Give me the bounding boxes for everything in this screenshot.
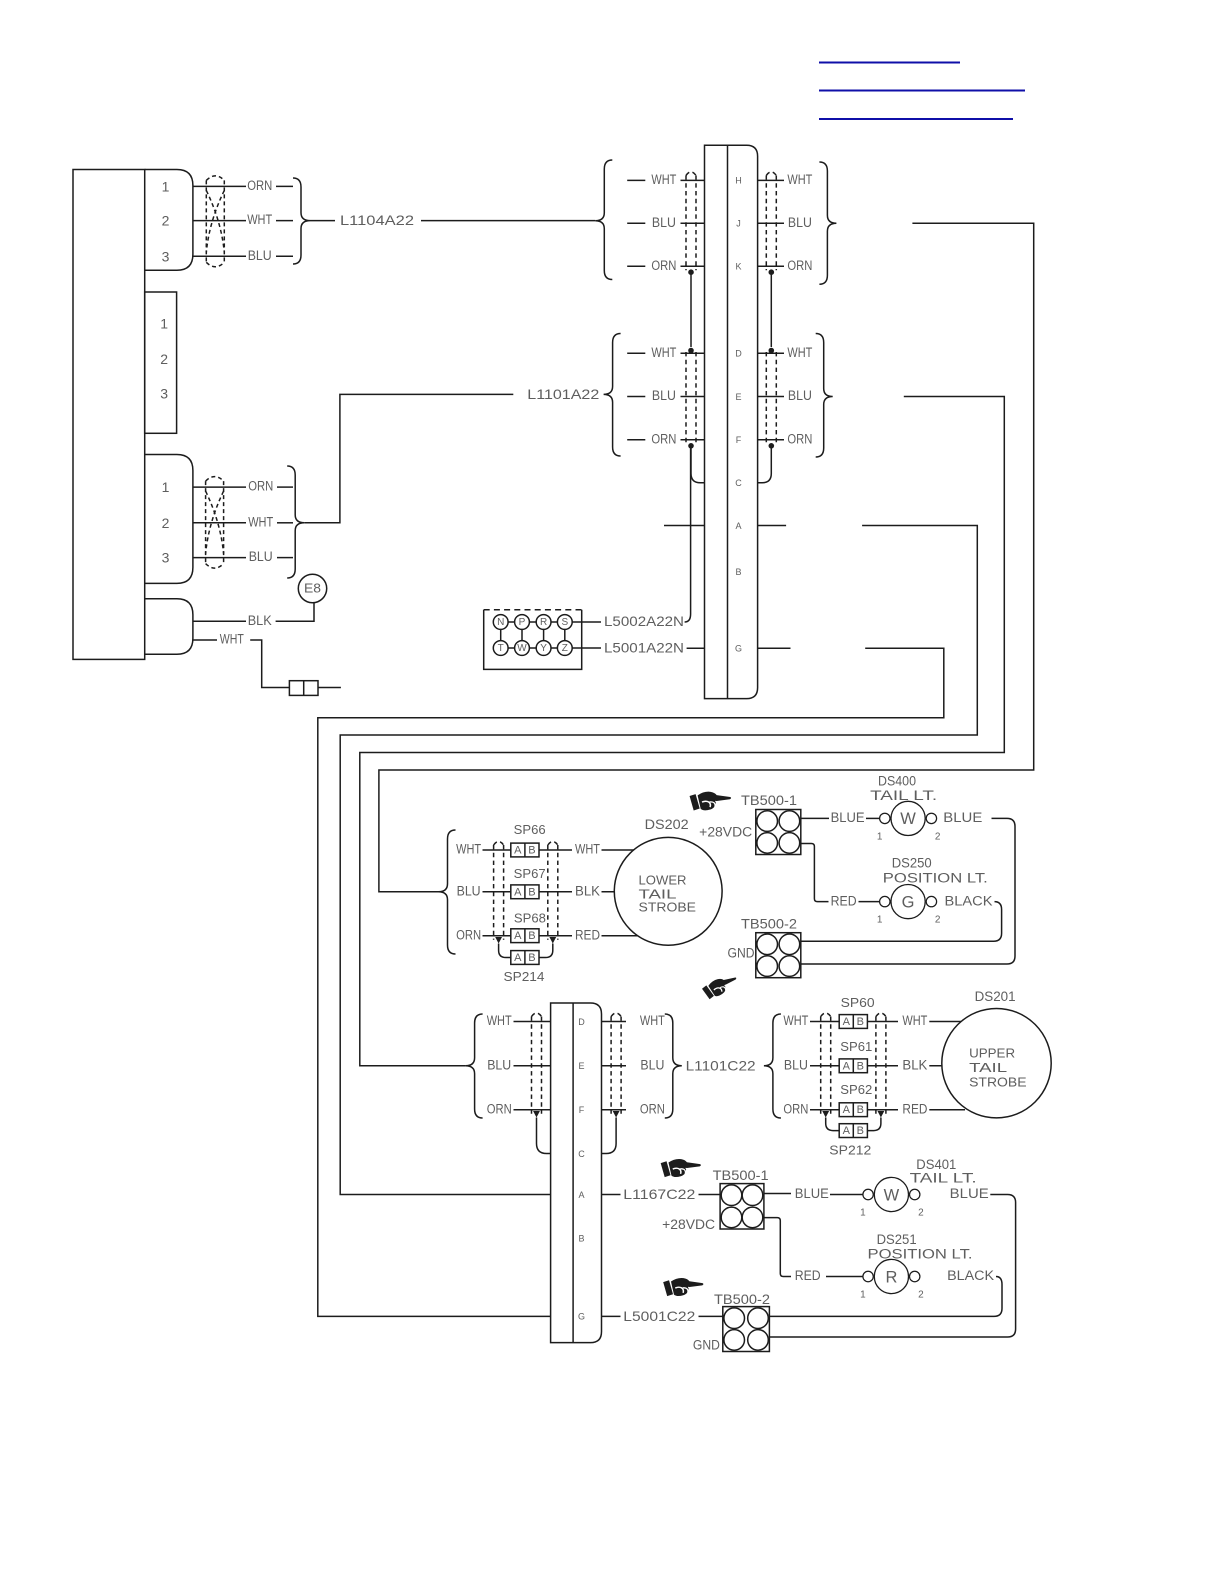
- svg-text:L5002A22N: L5002A22N: [604, 614, 684, 629]
- wire S to L5002A22N: [572, 621, 601, 623]
- wire pin2-WHT: [193, 220, 246, 222]
- svg-text:ORN: ORN: [787, 258, 812, 273]
- svg-text:2: 2: [935, 831, 941, 842]
- wire pin to ORN: [758, 265, 784, 267]
- wire pin1-ORN: [193, 185, 246, 187]
- wire BLU-brace: [276, 255, 293, 257]
- shield tie dot: [688, 269, 694, 275]
- svg-text:RED: RED: [902, 1101, 927, 1116]
- wire BLU to pin: [681, 222, 705, 224]
- shield arrow right: [878, 1111, 885, 1118]
- svg-text:2: 2: [160, 351, 168, 367]
- splice terminal T: [493, 641, 508, 656]
- wire splice to out: [539, 891, 572, 893]
- wire pin A left: [664, 525, 705, 527]
- shield arrow right: [549, 937, 556, 944]
- svg-text:BLU: BLU: [640, 1058, 664, 1073]
- wire (blue underline 2): [819, 90, 1025, 92]
- svg-text:DS202: DS202: [645, 817, 689, 832]
- wire pin to BLU: [758, 396, 784, 398]
- svg-text:ORN: ORN: [651, 258, 676, 273]
- wire WHT-brace: [277, 522, 293, 524]
- svg-text:L5001A22N: L5001A22N: [604, 640, 684, 655]
- svg-text:BLUE: BLUE: [795, 1186, 829, 1201]
- brace (left of P5, HJK): [595, 160, 612, 280]
- connector J2 (pins 1-3 unused): [145, 292, 177, 433]
- wire splice to out: [539, 849, 572, 851]
- svg-text:TB500-1: TB500-1: [741, 793, 797, 808]
- svg-text:BLU: BLU: [249, 549, 273, 564]
- wire (blue underline 3): [819, 118, 1013, 120]
- svg-text:2: 2: [935, 915, 941, 926]
- svg-text:ORN: ORN: [487, 1101, 512, 1116]
- svg-text:W: W: [900, 810, 916, 828]
- wire L1167C22 seg: [602, 1194, 621, 1196]
- svg-text:ORN: ORN: [248, 479, 273, 494]
- wire TB500-1 to BLUE: [764, 1193, 791, 1195]
- svg-text:ORN: ORN: [640, 1101, 665, 1116]
- svg-text:ORN: ORN: [787, 432, 812, 447]
- lamp DS201 (upper tail strobe): [942, 1008, 1051, 1117]
- svg-text:L1104A22: L1104A22: [340, 212, 414, 228]
- svg-text:2: 2: [162, 213, 170, 229]
- shield wire to SP214: [499, 944, 511, 958]
- svg-text:H: H: [735, 176, 742, 186]
- svg-text:STROBE: STROBE: [639, 900, 697, 915]
- wire J3 to L1101A22: [304, 394, 513, 522]
- svg-text:RED: RED: [795, 1268, 821, 1283]
- svg-text:WHT: WHT: [902, 1013, 927, 1028]
- svg-text:TAIL LT.: TAIL LT.: [910, 1170, 977, 1185]
- wire pin3-BLU: [193, 557, 246, 559]
- svg-text:DS250: DS250: [892, 856, 932, 871]
- svg-text:LOWER: LOWER: [639, 873, 687, 888]
- svg-text:BLACK: BLACK: [947, 1268, 994, 1283]
- svg-text:ORN: ORN: [247, 178, 272, 193]
- svg-text:SP67: SP67: [514, 866, 546, 881]
- wire BLU-brace: [277, 557, 293, 559]
- shield wire to SP212: [826, 1118, 840, 1131]
- splice SP66: [511, 843, 539, 857]
- svg-text:A: A: [514, 845, 522, 857]
- shield drain to pin C: [691, 446, 705, 483]
- svg-text:2: 2: [918, 1208, 924, 1219]
- svg-text:2: 2: [162, 515, 170, 531]
- svg-text:POSITION LT.: POSITION LT.: [883, 870, 988, 885]
- svg-text:BLU: BLU: [487, 1058, 511, 1073]
- wire DS401 BLUE down to TB500-2: [769, 1195, 1015, 1338]
- svg-text:J: J: [736, 219, 741, 229]
- svg-text:B: B: [528, 930, 535, 942]
- lamp DS250 (position light): [880, 896, 890, 906]
- wire stub BLU: [627, 222, 645, 224]
- svg-text:E: E: [578, 1061, 584, 1071]
- svg-text:G: G: [735, 644, 742, 654]
- splice terminal Y: [536, 641, 551, 656]
- svg-text:WHT: WHT: [247, 212, 272, 227]
- wire TB500-1 to DS250 RED: [801, 844, 829, 902]
- svg-text:W: W: [884, 1186, 900, 1204]
- svg-text:B: B: [857, 1016, 864, 1028]
- svg-text:BLU: BLU: [457, 884, 481, 899]
- pointing hand: [663, 1276, 704, 1297]
- wire BLU to pin: [514, 1065, 551, 1067]
- svg-text:BLU: BLU: [788, 388, 812, 403]
- svg-text:S: S: [561, 617, 568, 628]
- wire ORN to splice: [483, 935, 511, 937]
- wire ORN to pin: [681, 439, 705, 441]
- shield drain wire: [690, 272, 692, 347]
- wire TB500-1 to DS251 RED: [764, 1218, 791, 1277]
- svg-text:ORN: ORN: [783, 1101, 808, 1116]
- brace (SP60 group): [764, 1014, 781, 1118]
- terminal block TB500-1: [720, 1184, 764, 1229]
- wire pin to ORN: [602, 1109, 627, 1111]
- svg-text:BLUE: BLUE: [831, 810, 865, 825]
- svg-text:BLU: BLU: [248, 248, 272, 263]
- wire ORN to splice: [810, 1109, 839, 1111]
- svg-text:BLU: BLU: [652, 388, 676, 403]
- wire stub ORN: [627, 439, 645, 441]
- svg-text:BLK: BLK: [902, 1058, 927, 1073]
- svg-text:BLK: BLK: [248, 613, 272, 628]
- wire WHT to DS202: [602, 849, 641, 851]
- svg-text:A: A: [514, 930, 522, 942]
- brace (P6 right merge): [665, 1014, 682, 1118]
- svg-text:WHT: WHT: [787, 172, 812, 187]
- splice block wires: [501, 621, 565, 623]
- svg-text:SP61: SP61: [840, 1039, 872, 1054]
- svg-text:1: 1: [860, 1208, 866, 1219]
- wire stub WHT: [627, 352, 645, 354]
- svg-text:B: B: [528, 886, 535, 898]
- svg-text:GND: GND: [728, 946, 755, 961]
- splice terminal P: [515, 615, 530, 630]
- svg-text:RED: RED: [575, 927, 600, 942]
- shield dashes (P6 right): [610, 1017, 612, 1114]
- shield (left HJK): [685, 175, 687, 270]
- shield wire to pin C: [537, 1118, 551, 1154]
- svg-text:WHT: WHT: [575, 842, 600, 857]
- wire stub WHT: [627, 179, 645, 181]
- wire pin to BLU: [602, 1065, 627, 1067]
- svg-text:STROBE: STROBE: [969, 1075, 1027, 1090]
- svg-text:BLUE: BLUE: [950, 1186, 989, 1201]
- wire J-bus: [379, 223, 1034, 892]
- svg-text:A: A: [843, 1016, 851, 1028]
- svg-text:L5001C22: L5001C22: [623, 1308, 695, 1324]
- wire stub ORN: [627, 265, 645, 267]
- svg-text:1: 1: [162, 479, 170, 495]
- wire pin1-ORN: [193, 486, 246, 488]
- svg-text:BLACK: BLACK: [945, 893, 993, 908]
- splice block (N-Z): [484, 610, 582, 670]
- lamp DS401 (tail light): [863, 1189, 873, 1199]
- svg-text:BLU: BLU: [784, 1058, 808, 1073]
- wire WHT to pin: [681, 179, 705, 181]
- svg-text:+28VDC: +28VDC: [662, 1217, 715, 1232]
- svg-text:TB500-2: TB500-2: [714, 1292, 770, 1307]
- wire BLUE to DS401: [830, 1194, 863, 1196]
- shield (right DEF): [765, 352, 767, 444]
- splice SP212: [839, 1124, 867, 1138]
- svg-text:L1101C22: L1101C22: [686, 1057, 756, 1073]
- svg-text:A: A: [514, 952, 522, 964]
- connector J4 (gnd pins): [145, 599, 193, 654]
- wire RED to DS251: [826, 1276, 863, 1278]
- svg-text:A: A: [735, 521, 741, 531]
- wire pin-BLK: [193, 620, 246, 622]
- wire BLK to E8: [276, 603, 314, 622]
- svg-text:L1101A22: L1101A22: [527, 386, 599, 402]
- svg-text:UPPER: UPPER: [969, 1045, 1015, 1060]
- wire WHT to DS201: [929, 1021, 965, 1023]
- svg-text:WHT: WHT: [640, 1013, 665, 1028]
- shield drain wire: [770, 272, 772, 347]
- svg-text:TB500-1: TB500-1: [713, 1168, 769, 1183]
- svg-text:B: B: [857, 1060, 864, 1072]
- svg-text:1: 1: [160, 316, 168, 332]
- wire pin A right: [758, 525, 787, 527]
- svg-text:3: 3: [160, 386, 168, 402]
- svg-text:BLUE: BLUE: [943, 810, 982, 825]
- svg-text:A: A: [843, 1125, 851, 1137]
- svg-text:DS201: DS201: [975, 989, 1016, 1004]
- shield tie dot: [688, 443, 694, 449]
- wire WHT to pin: [514, 1021, 551, 1023]
- svg-text:1: 1: [877, 831, 883, 842]
- shield dashes (SP60 right): [875, 1017, 877, 1114]
- inline splice (2-cell): [289, 681, 318, 696]
- svg-text:R: R: [540, 617, 547, 628]
- svg-text:2: 2: [918, 1290, 924, 1301]
- wire DS250 BLACK to TB500-2: [801, 902, 1002, 942]
- svg-text:1: 1: [877, 915, 883, 926]
- brace (right DEF merge): [816, 334, 833, 458]
- twisted pair shield (J1 cable): [205, 180, 207, 262]
- svg-text:C: C: [578, 1149, 585, 1159]
- brace (J1 cable merge): [293, 178, 310, 264]
- wire RED to DS202: [602, 935, 641, 937]
- shield dashes (SP60 left): [820, 1017, 822, 1114]
- svg-text:T: T: [498, 643, 504, 654]
- svg-text:WHT: WHT: [487, 1013, 512, 1028]
- connector P6 body: [551, 1003, 602, 1343]
- svg-text:B: B: [528, 952, 535, 964]
- svg-text:F: F: [579, 1105, 585, 1115]
- splice terminal Z: [557, 641, 572, 656]
- terminal E8: [298, 574, 326, 602]
- svg-text:WHT: WHT: [783, 1013, 808, 1028]
- wire G-bus: [318, 648, 944, 1316]
- svg-text:B: B: [735, 567, 741, 577]
- svg-text:G: G: [902, 893, 915, 911]
- svg-text:B: B: [578, 1233, 584, 1243]
- wire pin to WHT: [602, 1021, 627, 1023]
- wire splice out: [867, 1065, 898, 1067]
- wire A-bus: [340, 526, 977, 1195]
- shield arrow left: [822, 1111, 829, 1118]
- svg-text:SP66: SP66: [514, 822, 546, 837]
- shield arrow: [613, 1111, 620, 1118]
- svg-text:C: C: [735, 478, 742, 488]
- shield wire to pin C: [602, 1118, 617, 1154]
- svg-text:BLU: BLU: [788, 215, 812, 230]
- svg-text:TAIL: TAIL: [969, 1060, 1007, 1075]
- wire BLU to pin: [681, 396, 705, 398]
- brace (SP66 group): [439, 830, 456, 954]
- shield tie dot: [769, 348, 775, 354]
- wire BLK to DS202: [602, 891, 641, 893]
- svg-text:B: B: [857, 1125, 864, 1137]
- svg-text:N: N: [497, 617, 504, 628]
- wire splice out: [867, 1021, 898, 1023]
- splice SP61: [839, 1059, 867, 1073]
- wire L5001A22N to pin G: [687, 647, 705, 649]
- svg-text:1: 1: [860, 1290, 866, 1301]
- wire splice to out: [539, 935, 572, 937]
- splice terminal N: [493, 615, 508, 630]
- svg-text:ORN: ORN: [651, 432, 676, 447]
- wire L5002A22N up to shield: [685, 446, 691, 622]
- svg-text:3: 3: [162, 550, 170, 566]
- wire pin2-WHT: [193, 522, 246, 524]
- brace (right HJK merge): [819, 162, 836, 284]
- shield drain to pin C: [758, 446, 772, 483]
- wire RED to DS201: [929, 1109, 965, 1111]
- twisted pair shield (J3 cable): [205, 481, 207, 563]
- wire splice out: [867, 1109, 898, 1111]
- wire Z to L5001A22N: [572, 647, 601, 649]
- svg-text:TAIL LT.: TAIL LT.: [870, 788, 937, 803]
- wire DS400 BLUE down to TB500-2: [801, 818, 1015, 964]
- equipment box (left unit): [73, 170, 145, 660]
- svg-text:F: F: [736, 435, 742, 445]
- connector P5 body: [705, 145, 758, 698]
- svg-text:SP68: SP68: [514, 910, 546, 925]
- wire TB500-1 to BLUE: [801, 817, 829, 819]
- svg-text:BLU: BLU: [652, 215, 676, 230]
- brace (left P6): [466, 1014, 483, 1118]
- splice SP67: [511, 885, 539, 899]
- svg-text:WHT: WHT: [220, 632, 244, 647]
- svg-text:D: D: [578, 1017, 585, 1027]
- svg-text:E8: E8: [304, 582, 321, 596]
- wire RED to DS250: [859, 901, 881, 903]
- terminal block TB500-1: [756, 810, 801, 855]
- lamp DS251 (position light): [863, 1271, 873, 1281]
- wire WHT to splice: [810, 1021, 839, 1023]
- svg-text:A: A: [578, 1190, 584, 1200]
- wire BLU to splice: [810, 1065, 839, 1067]
- shield dashes (P6 left): [531, 1017, 533, 1114]
- splice SP68: [511, 929, 539, 943]
- svg-text:DS251: DS251: [877, 1232, 917, 1247]
- wire WHT to splice: [250, 640, 289, 688]
- splice SP60: [839, 1015, 867, 1029]
- shield tie dot: [769, 443, 775, 449]
- brace (left of P5, DEF): [604, 334, 621, 457]
- svg-text:3: 3: [162, 248, 170, 264]
- svg-text:A: A: [514, 886, 522, 898]
- splice terminal R: [536, 615, 551, 630]
- lamp DS400 (tail light): [880, 813, 890, 823]
- svg-text:L1167C22: L1167C22: [623, 1186, 695, 1202]
- svg-text:B: B: [857, 1104, 864, 1116]
- wire DS251 BLACK to TB500-2: [769, 1277, 1002, 1317]
- wire L1104A22: [421, 220, 595, 222]
- svg-text:ORN: ORN: [456, 927, 481, 942]
- svg-text:SP212: SP212: [829, 1142, 871, 1157]
- svg-text:W: W: [517, 643, 527, 654]
- splice SP214: [511, 951, 539, 965]
- svg-text:E: E: [735, 392, 741, 402]
- svg-text:BLK: BLK: [575, 884, 600, 899]
- wire E-bus: [360, 397, 1005, 1066]
- svg-text:SP60: SP60: [841, 995, 875, 1010]
- splice SP62: [839, 1103, 867, 1117]
- lamp DS202 (lower tail strobe): [614, 837, 722, 945]
- svg-text:TB500-2: TB500-2: [741, 917, 797, 932]
- shield tie dot: [688, 348, 694, 354]
- svg-text:SP214: SP214: [504, 969, 545, 984]
- wire WHT-brace: [276, 220, 293, 222]
- svg-text:GND: GND: [693, 1338, 720, 1353]
- wire pin3-BLU: [193, 255, 246, 257]
- terminal block TB500-2: [756, 933, 801, 978]
- svg-text:WHT: WHT: [248, 514, 273, 529]
- wire (blue underline 1): [819, 62, 960, 64]
- svg-text:Z: Z: [562, 643, 568, 654]
- connector J3 (pins 1-3): [145, 455, 193, 584]
- svg-text:G: G: [578, 1312, 585, 1322]
- shield dashes (SP66 right): [547, 845, 549, 940]
- svg-text:DS400: DS400: [878, 774, 916, 789]
- wire pin to BLU: [758, 222, 784, 224]
- pointing hand: [701, 972, 740, 1001]
- wire BLUE to DS400: [866, 817, 880, 819]
- splice terminal S: [557, 615, 572, 630]
- shield arrow: [533, 1111, 540, 1118]
- splice terminal W: [515, 641, 530, 656]
- wire WHT to splice: [483, 849, 511, 851]
- wire ORN-brace: [277, 486, 293, 488]
- svg-text:B: B: [528, 845, 535, 857]
- svg-text:+28VDC: +28VDC: [699, 824, 752, 839]
- wire L5001C22 seg: [602, 1315, 621, 1317]
- wire BLK to DS201: [929, 1065, 965, 1067]
- wire stub BLU: [627, 396, 645, 398]
- terminal block TB500-2: [723, 1307, 770, 1352]
- shield (right HJK): [765, 175, 767, 270]
- shield arrow left: [495, 937, 502, 944]
- wire pin to WHT: [758, 352, 784, 354]
- wire WHT to pin: [681, 352, 705, 354]
- svg-text:WHT: WHT: [651, 172, 676, 187]
- svg-text:Y: Y: [540, 643, 547, 654]
- svg-text:R: R: [885, 1268, 897, 1286]
- wire pin to ORN: [758, 439, 784, 441]
- wire pin to WHT: [758, 179, 784, 181]
- wire ORN to pin: [514, 1109, 551, 1111]
- svg-text:POSITION LT.: POSITION LT.: [868, 1247, 973, 1262]
- svg-text:D: D: [735, 349, 742, 359]
- svg-text:A: A: [843, 1060, 851, 1072]
- svg-text:WHT: WHT: [651, 345, 676, 360]
- wire BLU to splice: [483, 891, 511, 893]
- svg-text:WHT: WHT: [787, 345, 812, 360]
- svg-text:SP62: SP62: [840, 1082, 872, 1097]
